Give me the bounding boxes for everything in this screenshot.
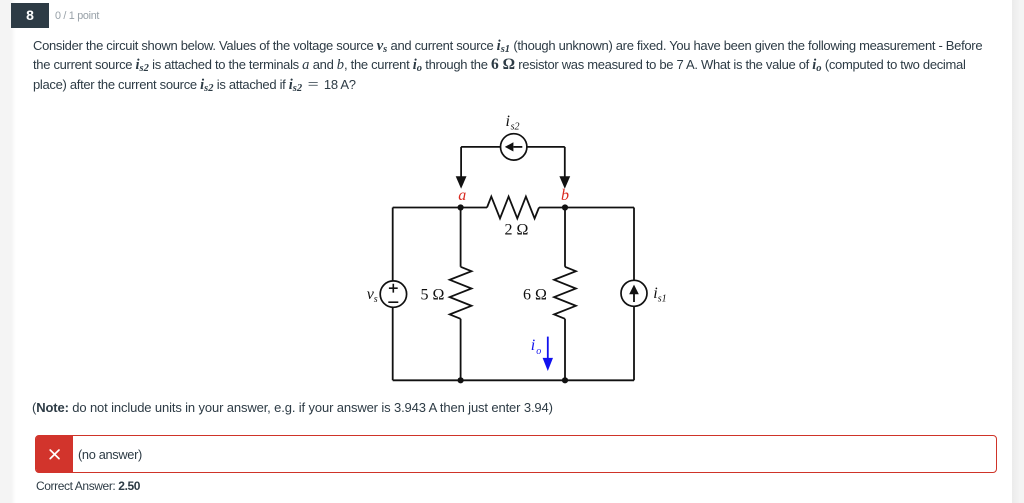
arrowhead: is2 right drop pointing down at b <box>559 176 570 189</box>
svg-text:s1: s1 <box>658 293 667 304</box>
arrowhead: is2 left drop pointing down at a <box>456 176 467 189</box>
bottom node dot left <box>458 377 464 383</box>
answer box with incorrect mark <box>35 435 997 473</box>
wire: outer right vertical (top half, above is1) <box>633 208 635 281</box>
note line <box>32 400 553 415</box>
vs minus sign <box>388 301 398 303</box>
wire: 5 ohm branch upper lead <box>460 208 462 267</box>
resistor R 6ohm zigzag (vertical) <box>554 267 576 319</box>
wire: top wire from resistor to right corner <box>539 207 634 209</box>
question paragraph <box>33 36 1024 94</box>
red x icon square <box>36 435 73 473</box>
voltage source vs circle <box>380 281 406 307</box>
wire: outer left vertical (top half, above vs) <box>392 208 394 282</box>
arrowhead: is2 internal left arrow <box>505 142 514 151</box>
wire: 5 ohm branch lower lead <box>460 319 462 381</box>
wire: is1 arrow shaft <box>633 294 635 303</box>
svg-text:o: o <box>536 346 541 357</box>
svg-text:s2: s2 <box>511 122 520 133</box>
question number badge 8 <box>11 3 49 28</box>
bottom node dot right <box>562 377 568 383</box>
wire: is2 arrow shaft <box>514 146 523 148</box>
svg-text:i: i <box>531 337 535 354</box>
wire: 6 ohm branch upper lead <box>564 208 566 267</box>
wire: is2 loop right vertical drop to b <box>564 147 566 177</box>
score 0 / 1 point <box>55 10 99 22</box>
wire: outer left vertical (bottom half, below vs) <box>392 307 394 380</box>
svg-text:b: b <box>561 187 569 204</box>
node b dot <box>562 204 568 210</box>
node a dot <box>458 204 464 210</box>
current source is1 circle <box>621 280 647 306</box>
wire: bottom wire <box>393 379 634 381</box>
resistor R 5ohm zigzag (vertical) <box>450 267 472 319</box>
wire: outer right vertical (bottom half, below is1) <box>633 306 635 380</box>
io blue arrow <box>543 337 553 371</box>
svg-text:2 Ω: 2 Ω <box>505 222 529 239</box>
circuit schematic SVG <box>358 106 678 392</box>
svg-text:s: s <box>374 294 378 305</box>
resistor R 2ohm zigzag (horizontal between a and b) <box>487 197 539 219</box>
wire: 6 ohm branch lower lead <box>564 319 566 381</box>
svg-text:6 Ω: 6 Ω <box>523 287 547 304</box>
svg-text:a: a <box>458 187 466 204</box>
wire: is2 loop left vertical drop to a <box>460 147 462 177</box>
wire: top wire from left corner to node a <box>393 207 487 209</box>
(no answer) text <box>78 447 142 462</box>
current source is2 circle <box>501 134 527 160</box>
wire: is2 top horizontal right of circle <box>527 146 565 148</box>
correct answer line <box>36 479 140 493</box>
svg-text:5 Ω: 5 Ω <box>421 287 445 304</box>
arrowhead: is1 internal up arrow <box>629 285 639 295</box>
wire: is2 top horizontal left of circle <box>461 146 500 148</box>
vs plus sign <box>389 284 398 293</box>
svg-text:i: i <box>506 113 510 130</box>
